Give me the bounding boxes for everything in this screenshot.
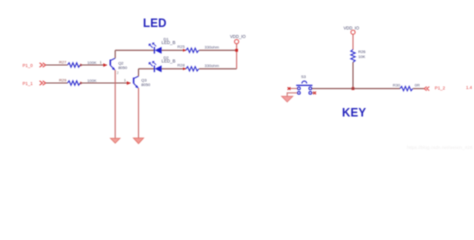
VDD_IO circle (LED) — [235, 40, 239, 44]
wire D1 row (Q2 collector to LED D1) — [115, 49, 154, 51]
wire Q2 emitter down to ground — [114, 70, 116, 138]
red arrow at Q2 base — [103, 63, 107, 67]
svg-text:S3: S3 — [301, 74, 307, 79]
wire R29 to Q3 base — [80, 82, 131, 84]
wire P1_0 to R27 — [46, 64, 68, 66]
no-ERC cross (S3 bottom-right) — [313, 92, 316, 95]
wire D2 row corner (Q3 collector to LED D2) — [139, 68, 155, 70]
red arrow at R28 — [183, 67, 186, 70]
svg-text:VDD_IO: VDD_IO — [230, 34, 246, 39]
svg-text:330ohm: 330ohm — [205, 44, 220, 49]
wire R27 to Q2 base — [80, 64, 107, 66]
junction (R26 / key row) — [352, 87, 355, 90]
svg-text:R28: R28 — [177, 63, 185, 68]
svg-text:330ohm: 330ohm — [205, 63, 220, 68]
wire S3 pin top-left stub — [289, 88, 298, 90]
VDD_IO circle (KEY) — [351, 30, 355, 34]
wire Q2 collector up — [114, 50, 116, 58]
svg-text:https://blog.csdn.net/weixin_4: https://blog.csdn.net/weixin_428 — [407, 145, 473, 150]
red arrow after R29 — [80, 82, 83, 85]
wire R25 to VDD rail — [199, 49, 237, 51]
resistor R27 zigzag — [68, 63, 81, 67]
svg-text:P1_1: P1_1 — [23, 81, 34, 86]
svg-text:8050: 8050 — [141, 82, 151, 87]
svg-text:1.4: 1.4 — [466, 85, 473, 90]
VDD_IO rail (LED) — [236, 44, 238, 69]
svg-text:KEY: KEY — [342, 108, 366, 120]
svg-text:R30: R30 — [393, 83, 401, 88]
svg-text:VDD_IO: VDD_IO — [344, 26, 360, 31]
svg-text:0R: 0R — [415, 82, 420, 87]
svg-text:R25: R25 — [177, 44, 185, 49]
junction (VDD rail / R25) — [235, 49, 238, 52]
wire D1 to R25 — [162, 49, 186, 51]
ground (Q3 emitter) — [133, 138, 143, 144]
resistor R26 zigzag (vertical) — [351, 50, 355, 63]
wire P1_1 to R29 — [46, 82, 68, 84]
svg-text:10K: 10K — [358, 54, 365, 59]
wire R30 to port P1_2 — [413, 88, 425, 90]
wire Q3 collector up — [138, 69, 140, 76]
LED D1 — [149, 43, 162, 54]
port chevron P1_1 — [40, 81, 46, 85]
svg-text:LED_B: LED_B — [162, 58, 176, 63]
no-ERC cross (S3 top-left) — [288, 87, 291, 90]
svg-text:1: 1 — [100, 60, 102, 64]
red arrow after R27 — [80, 64, 83, 67]
transistor Q3 — [134, 76, 139, 88]
svg-text:100K: 100K — [87, 78, 97, 83]
LED D2 — [149, 62, 162, 73]
wire R26 to key row — [352, 62, 354, 88]
svg-text:8050: 8050 — [118, 65, 128, 70]
red arrow at R25 — [183, 49, 186, 52]
resistor R25 zigzag — [186, 48, 199, 52]
svg-text:LED: LED — [143, 18, 167, 30]
port chevron P1_2 — [424, 87, 429, 91]
wire Q3 emitter down to ground — [138, 88, 140, 138]
ground (S3) — [282, 96, 293, 102]
svg-text:1: 1 — [124, 78, 126, 82]
wire D2 to R28 — [162, 68, 186, 70]
VDD_IO stub to R26 — [352, 34, 354, 49]
svg-text:LED_B: LED_B — [162, 40, 176, 45]
wire R28 to VDD rail — [199, 68, 237, 70]
port chevron P1_0 — [40, 63, 46, 67]
transistor Q2 — [110, 58, 115, 70]
wire S3 bottom-left to ground — [287, 93, 297, 96]
resistor R29 zigzag — [68, 81, 81, 85]
svg-text:2: 2 — [117, 71, 119, 75]
svg-text:R27: R27 — [59, 60, 67, 65]
resistor R30 zigzag — [400, 86, 413, 90]
resistor R28 zigzag — [186, 67, 199, 71]
svg-text:P1_0: P1_0 — [23, 63, 34, 68]
red arrow at Q3 base — [127, 81, 131, 85]
wire S3 bottom-right stub — [312, 92, 315, 94]
svg-text:P1_2: P1_2 — [435, 86, 446, 91]
switch S3 — [296, 81, 312, 94]
ground (Q2 emitter) — [110, 138, 120, 143]
wire key row (S3 to R30) — [312, 88, 400, 90]
svg-text:100K: 100K — [87, 60, 97, 65]
svg-text:R29: R29 — [59, 78, 67, 83]
